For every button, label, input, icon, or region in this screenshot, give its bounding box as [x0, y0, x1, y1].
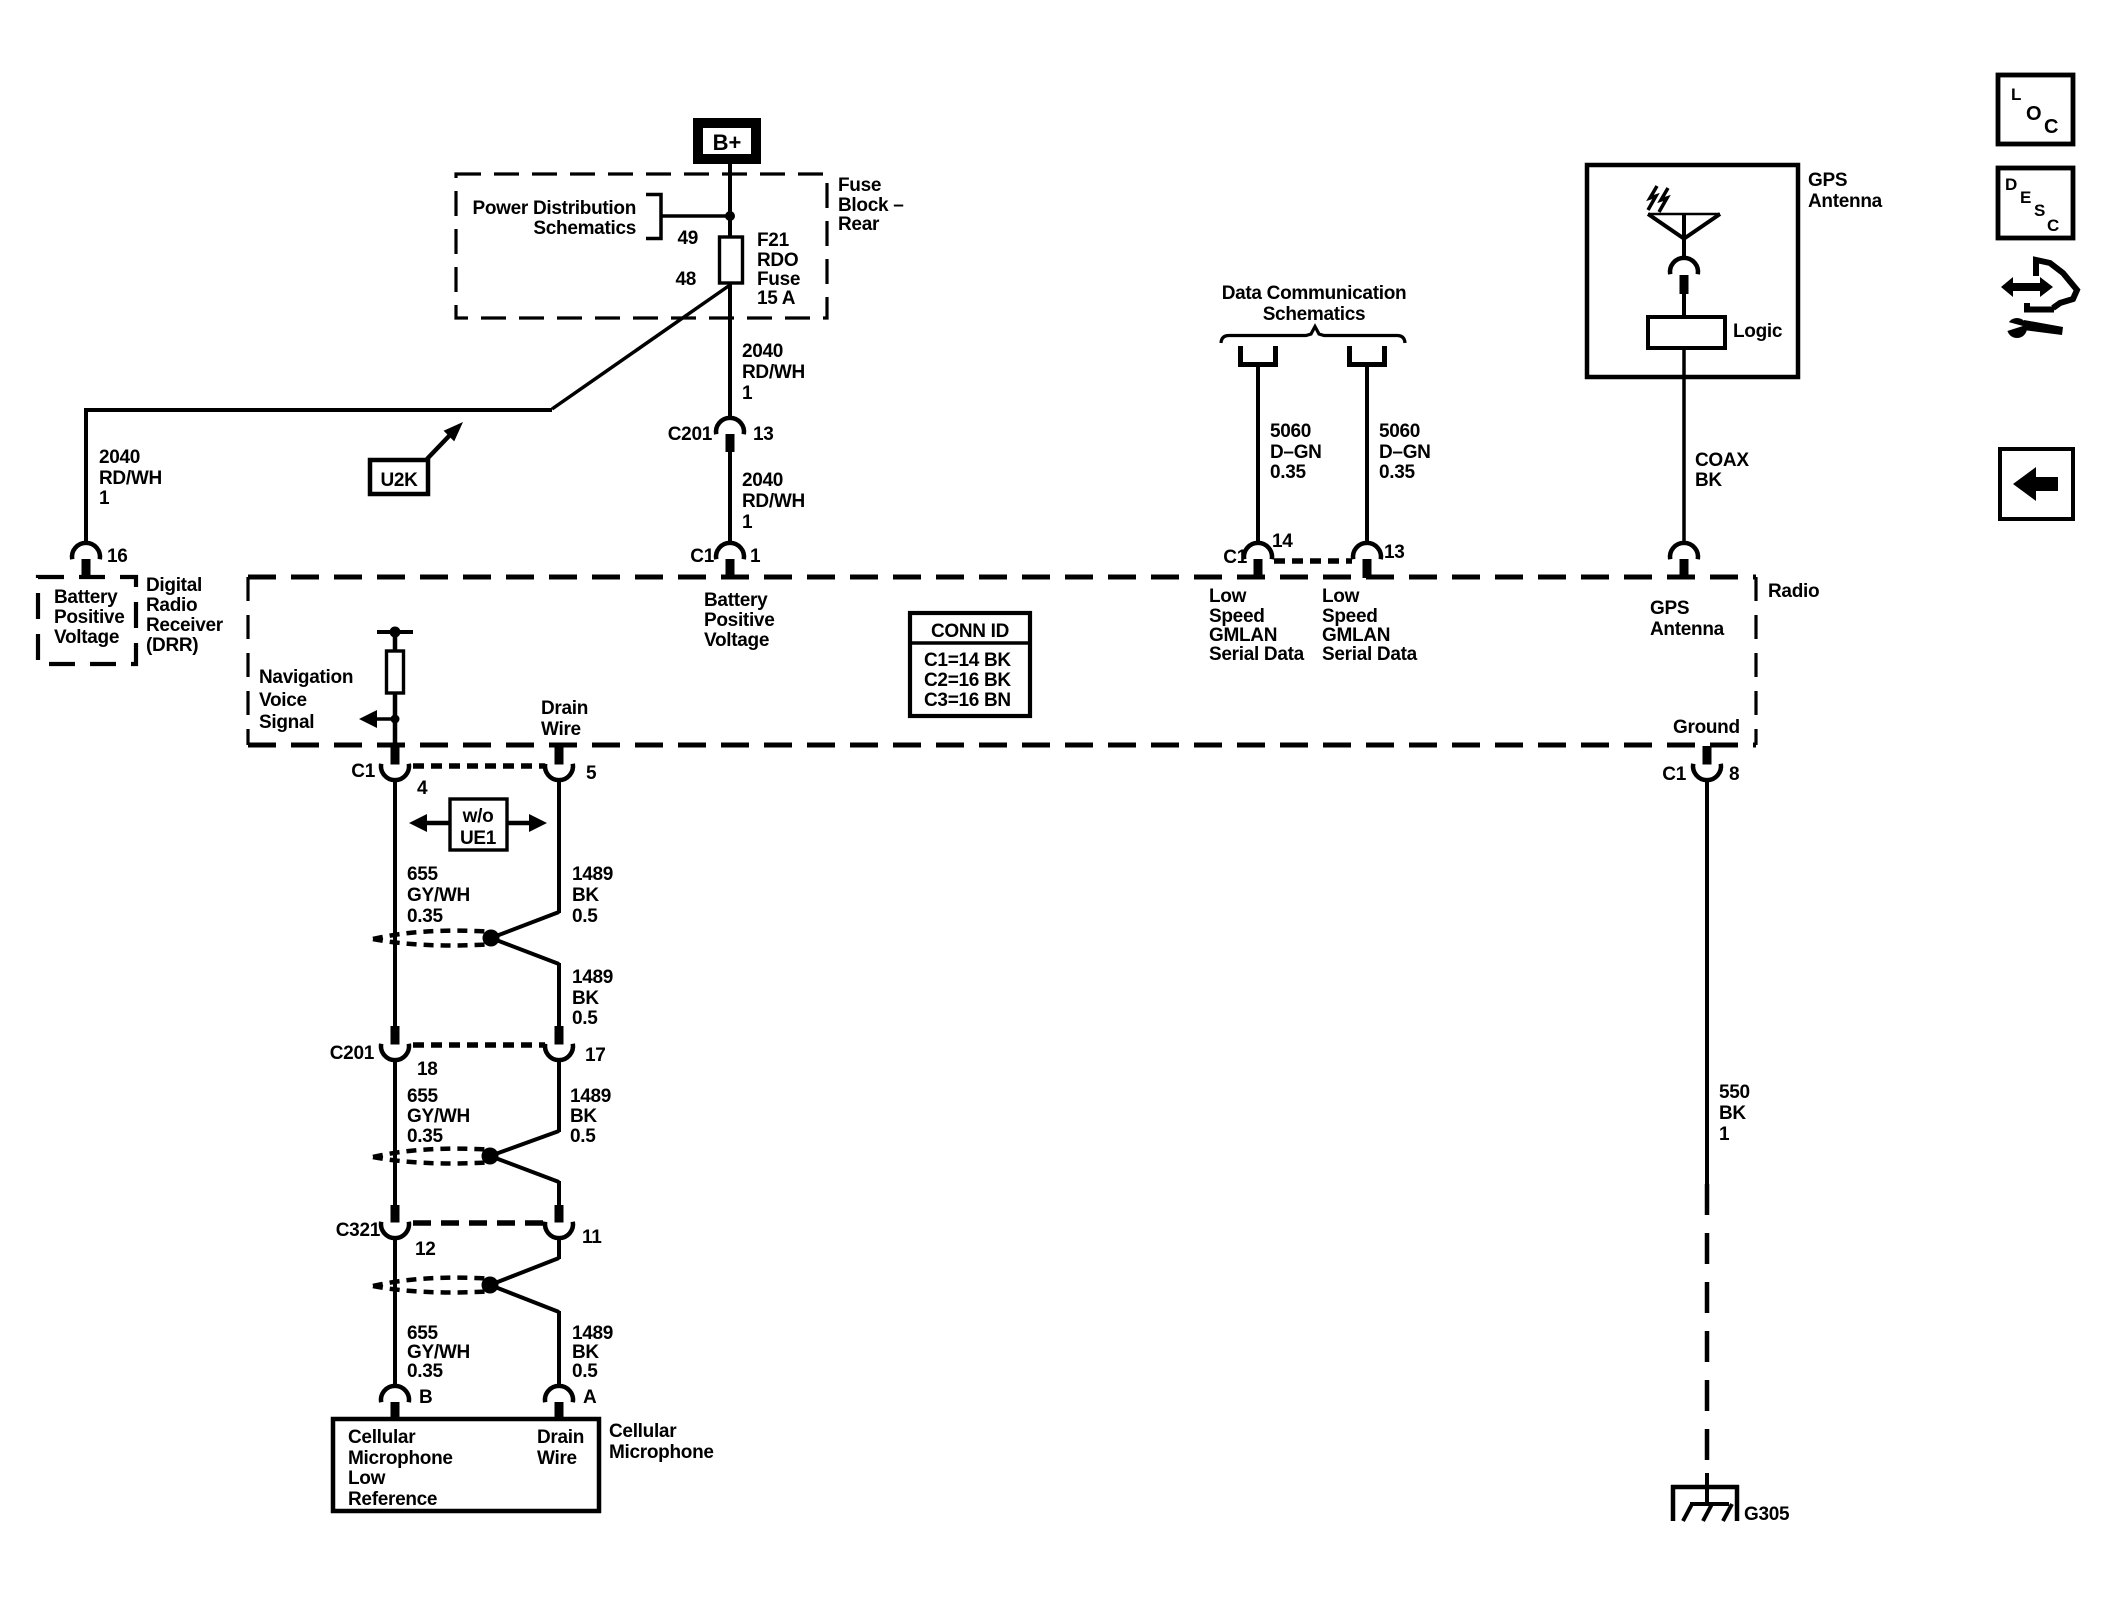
- wire label 2040 RD/WH 1 (upper middle): [742, 341, 805, 404]
- svg-text:1: 1: [1719, 1124, 1730, 1145]
- C1 8 labels: [1662, 764, 1739, 785]
- svg-text:Block –: Block –: [838, 195, 904, 216]
- shield junction dot 2: [482, 1148, 499, 1165]
- svg-text:49: 49: [677, 228, 698, 249]
- wire 655 segment 3: [393, 1236, 397, 1387]
- terminal B A labels: [419, 1387, 597, 1408]
- icon back arrow box: [2000, 449, 2073, 519]
- C321 12 11 labels: [336, 1220, 602, 1260]
- svg-text:D–GN: D–GN: [1270, 442, 1322, 463]
- wire GMLAN right: [1365, 365, 1369, 544]
- svg-text:BK: BK: [1695, 470, 1722, 491]
- svg-text:Low: Low: [348, 1468, 386, 1489]
- svg-text:CONN ID: CONN ID: [931, 621, 1009, 642]
- svg-text:Antenna: Antenna: [1808, 191, 1883, 212]
- wire label COAX BK: [1695, 450, 1749, 491]
- navigation voice signal arrow: [359, 710, 400, 728]
- svg-text:11: 11: [582, 1227, 602, 1248]
- svg-text:UE1: UE1: [460, 828, 497, 849]
- svg-text:0.5: 0.5: [572, 906, 598, 927]
- svg-text:Schematics: Schematics: [533, 218, 636, 239]
- svg-text:Power Distribution: Power Distribution: [473, 198, 637, 219]
- connector C1 pin 5 below radio: [545, 746, 573, 780]
- svg-text:Microphone: Microphone: [348, 1448, 453, 1469]
- shield ellipse 1: [373, 931, 487, 939]
- wire drain segment 3: [557, 1058, 561, 1132]
- wire drain segment 2: [557, 963, 561, 1026]
- svg-text:1: 1: [99, 488, 110, 509]
- svg-text:RD/WH: RD/WH: [99, 468, 162, 489]
- data comm right connector bracket: [1350, 346, 1385, 365]
- wire label 1489 BK 0.5 (2): [572, 967, 613, 1029]
- connector C1 GPS antenna at radio: [1670, 543, 1698, 578]
- svg-text:0.35: 0.35: [1270, 462, 1307, 483]
- svg-text:GY/WH: GY/WH: [407, 885, 470, 906]
- radio dashed box top edge: [248, 575, 1756, 580]
- bracket to power distribution: [646, 195, 661, 239]
- svg-text:1489: 1489: [572, 967, 613, 988]
- svg-text:G305: G305: [1744, 1504, 1790, 1525]
- coax wire GPS to radio: [1682, 348, 1686, 544]
- svg-text:GPS: GPS: [1650, 598, 1689, 619]
- svg-text:Low: Low: [1209, 586, 1247, 607]
- svg-text:BK: BK: [572, 988, 599, 1009]
- drain diagonal from shield 1: [491, 938, 559, 964]
- svg-text:2040: 2040: [99, 447, 140, 468]
- label Navigation Voice Signal: [259, 667, 353, 733]
- label GPS Antenna (module): [1808, 170, 1883, 212]
- terminal B connector: [381, 1386, 409, 1421]
- w/o UE1 double arrow: [409, 814, 547, 832]
- dashed link between pins 12 and 11: [413, 1220, 545, 1226]
- svg-text:w/o: w/o: [462, 806, 494, 827]
- svg-text:Battery: Battery: [54, 587, 118, 608]
- svg-text:Voice: Voice: [259, 690, 307, 711]
- svg-text:1: 1: [742, 512, 753, 533]
- svg-text:C: C: [2047, 216, 2059, 235]
- wire label 550 BK 1: [1719, 1082, 1750, 1145]
- svg-text:Cellular: Cellular: [348, 1427, 416, 1448]
- svg-text:Digital: Digital: [146, 575, 202, 596]
- svg-text:GY/WH: GY/WH: [407, 1106, 470, 1127]
- svg-text:Low: Low: [1322, 586, 1360, 607]
- svg-text:Schematics: Schematics: [1263, 304, 1366, 325]
- drain diagonal from shield 2: [490, 1156, 559, 1182]
- svg-text:Drain: Drain: [537, 1427, 584, 1448]
- svg-text:5: 5: [586, 763, 597, 784]
- svg-text:0.5: 0.5: [572, 1361, 598, 1382]
- svg-text:0.5: 0.5: [572, 1008, 598, 1029]
- svg-text:Microphone: Microphone: [609, 1442, 714, 1463]
- ground symbol G305: [1671, 1473, 1739, 1521]
- wire B+ to fuse: [728, 164, 732, 237]
- wire GMLAN left: [1256, 365, 1260, 544]
- svg-text:Logic: Logic: [1733, 321, 1783, 342]
- drain diagonal down to shield 2: [490, 1131, 559, 1156]
- svg-text:F21: F21: [757, 230, 790, 251]
- svg-text:BK: BK: [570, 1106, 597, 1127]
- wire label 2040 RD/WH 1 (left): [99, 447, 162, 509]
- svg-text:655: 655: [407, 1323, 439, 1344]
- cellular microphone box: [333, 1419, 599, 1511]
- svg-text:L: L: [2011, 85, 2021, 104]
- svg-text:C321: C321: [336, 1220, 381, 1241]
- svg-text:GMLAN: GMLAN: [1209, 625, 1277, 646]
- w/o UE1 callout: [450, 799, 507, 850]
- shield junction dot 3: [482, 1277, 499, 1294]
- wire drain segment 5: [557, 1236, 561, 1259]
- svg-text:1489: 1489: [572, 864, 613, 885]
- svg-text:17: 17: [585, 1045, 606, 1066]
- svg-text:Serial Data: Serial Data: [1209, 644, 1305, 665]
- label Fuse Block - Rear: [838, 175, 904, 235]
- label Drain Wire (microphone): [537, 1427, 584, 1469]
- svg-text:2040: 2040: [742, 470, 783, 491]
- connector C1 pin 14 at radio: [1244, 543, 1272, 578]
- svg-text:550: 550: [1719, 1082, 1750, 1103]
- svg-text:Radio: Radio: [146, 595, 197, 616]
- wire label 5060 D-GN 0.35 right: [1379, 421, 1431, 483]
- svg-text:Serial Data: Serial Data: [1322, 644, 1418, 665]
- wire label 1489 BK 0.5 (1): [572, 864, 613, 927]
- label Power Distribution Schematics: [473, 198, 637, 239]
- C1 4 5 labels: [351, 761, 597, 799]
- svg-text:0.35: 0.35: [1379, 462, 1416, 483]
- label Digital Radio Receiver (DRR): [146, 575, 224, 656]
- svg-text:Wire: Wire: [537, 1448, 577, 1469]
- logic box: [1648, 317, 1725, 348]
- svg-text:C1: C1: [1223, 547, 1247, 568]
- shield junction dot 1: [483, 930, 500, 947]
- wire fuse to C201: [728, 283, 732, 420]
- icon LOC box: [1998, 75, 2073, 144]
- svg-text:Speed: Speed: [1209, 606, 1265, 627]
- connector 16 at DRR: [72, 543, 100, 578]
- svg-text:1489: 1489: [572, 1323, 613, 1344]
- svg-text:Antenna: Antenna: [1650, 619, 1725, 640]
- svg-text:Fuse: Fuse: [757, 269, 800, 290]
- svg-text:0.5: 0.5: [570, 1126, 596, 1147]
- svg-text:Navigation: Navigation: [259, 667, 353, 688]
- wire T-bar to resistor: [393, 632, 398, 651]
- svg-text:BK: BK: [572, 1342, 599, 1363]
- svg-text:Ground: Ground: [1673, 717, 1740, 738]
- label Battery Positive Voltage (DRR): [54, 587, 124, 648]
- svg-text:RD/WH: RD/WH: [742, 362, 805, 383]
- svg-text:655: 655: [407, 864, 439, 885]
- svg-text:655: 655: [407, 1086, 439, 1107]
- svg-text:5060: 5060: [1270, 421, 1311, 442]
- svg-text:Positive: Positive: [54, 607, 124, 628]
- wire 655 segment 1: [393, 780, 397, 1026]
- icon connector-view (double arrow, outline, wrench): [2001, 260, 2077, 338]
- label GPS Antenna (radio pin): [1650, 598, 1725, 640]
- svg-text:GY/WH: GY/WH: [407, 1342, 470, 1363]
- wire drain segment 4: [557, 1181, 561, 1205]
- svg-text:C201: C201: [330, 1043, 375, 1064]
- dotted link between pins 4 and 5: [413, 763, 545, 769]
- dashed link between pins 14 and 13: [1274, 558, 1352, 564]
- label Low Speed GMLAN Serial Data left: [1209, 586, 1305, 665]
- label Battery Positive Voltage (radio): [704, 590, 774, 651]
- data comm left connector bracket: [1241, 346, 1276, 365]
- svg-text:U2K: U2K: [380, 470, 418, 491]
- svg-text:Voltage: Voltage: [704, 630, 769, 651]
- wire drain segment 6: [557, 1311, 561, 1387]
- dotted link between pins 18 and 17: [413, 1042, 545, 1048]
- svg-text:C1: C1: [690, 546, 714, 567]
- svg-text:D–GN: D–GN: [1379, 442, 1431, 463]
- connector C1 pin 8 below radio: [1693, 746, 1721, 780]
- svg-text:0.35: 0.35: [407, 906, 444, 927]
- U2K arrow: [427, 422, 463, 459]
- antenna symbol: [1648, 214, 1720, 259]
- svg-text:14: 14: [1272, 531, 1293, 552]
- svg-text:E: E: [2020, 188, 2031, 207]
- svg-text:Drain: Drain: [541, 698, 588, 719]
- svg-text:16: 16: [107, 546, 128, 567]
- wire antenna to logic: [1682, 294, 1686, 317]
- ground wire solid segment: [1705, 780, 1709, 1184]
- U2K callout box: [370, 460, 428, 494]
- svg-text:C1=14 BK: C1=14 BK: [924, 650, 1011, 671]
- wire drain segment 1: [557, 780, 561, 913]
- C201 18 17 labels: [330, 1043, 606, 1080]
- wire horizontal branch to DRR: [86, 410, 552, 543]
- svg-text:BK: BK: [572, 885, 599, 906]
- wire label 655 GY/WH 0.35 (3): [407, 1323, 470, 1382]
- brace under Data Communication: [1221, 327, 1405, 344]
- wire label 1489 BK 0.5 (3): [570, 1086, 611, 1147]
- svg-text:Speed: Speed: [1322, 606, 1378, 627]
- wire label 655 GY/WH 0.35 (1): [407, 864, 470, 927]
- fuse F21 RDO 15 A: [720, 237, 743, 283]
- svg-text:B: B: [419, 1387, 432, 1408]
- svg-text:D: D: [2005, 175, 2017, 194]
- svg-text:1: 1: [742, 383, 753, 404]
- connector C1 pin 1 at radio: [716, 543, 744, 578]
- svg-text:15 A: 15 A: [757, 288, 796, 309]
- svg-text:Reference: Reference: [348, 1489, 437, 1510]
- svg-text:RDO: RDO: [757, 250, 798, 271]
- svg-text:Radio: Radio: [1768, 581, 1819, 602]
- svg-text:Fuse: Fuse: [838, 175, 881, 196]
- svg-text:1: 1: [750, 546, 761, 567]
- drain diagonal down to shield 1: [491, 912, 559, 938]
- shield ellipse 3: [373, 1278, 487, 1286]
- label Cellular Microphone Low Reference: [348, 1427, 453, 1510]
- svg-text:C: C: [2044, 116, 2058, 138]
- terminal A connector: [545, 1386, 573, 1421]
- fuse block - rear dashed box: [456, 174, 827, 318]
- antenna signal marks: [1648, 186, 1668, 212]
- GPS antenna module box: [1587, 165, 1798, 377]
- svg-text:RD/WH: RD/WH: [742, 491, 805, 512]
- svg-text:A: A: [583, 1387, 597, 1408]
- connector C201 terminal 13: [716, 418, 744, 452]
- svg-text:BK: BK: [1719, 1103, 1746, 1124]
- icon DESC box: [1998, 168, 2073, 238]
- power symbol B+: [698, 123, 756, 159]
- svg-text:Data Communication: Data Communication: [1222, 283, 1407, 304]
- connector C321 pin 11: [545, 1205, 573, 1238]
- drain diagonal from shield 3: [490, 1285, 559, 1312]
- svg-text:COAX: COAX: [1695, 450, 1749, 471]
- svg-text:48: 48: [675, 269, 696, 290]
- antenna connector: [1670, 258, 1698, 294]
- svg-text:C3=16 BN: C3=16 BN: [924, 690, 1011, 711]
- svg-text:C2=16 BK: C2=16 BK: [924, 670, 1011, 691]
- svg-text:18: 18: [417, 1059, 438, 1080]
- connector pin 13 at radio: [1353, 543, 1381, 578]
- radio dashed box left edge: [246, 577, 249, 745]
- svg-text:GMLAN: GMLAN: [1322, 625, 1390, 646]
- svg-text:Wire: Wire: [541, 719, 581, 740]
- svg-text:1489: 1489: [570, 1086, 611, 1107]
- wire label 655 GY/WH 0.35 (2): [407, 1086, 470, 1147]
- label Data Communication Schematics: [1222, 283, 1407, 325]
- label Low Speed GMLAN Serial Data right: [1322, 586, 1418, 665]
- svg-text:C1: C1: [1662, 764, 1686, 785]
- wire resistor to box edge: [393, 693, 398, 748]
- DRR dashed box: [38, 577, 136, 664]
- drain diagonal down to shield 3: [490, 1258, 559, 1285]
- svg-text:C1: C1: [351, 761, 375, 782]
- svg-text:0.35: 0.35: [407, 1126, 444, 1147]
- svg-text:B+: B+: [713, 130, 742, 155]
- radio dashed box bottom edge: [248, 743, 1756, 748]
- junction dot at B+ wire: [725, 211, 735, 221]
- svg-text:O: O: [2026, 103, 2042, 125]
- navigation resistor element: [387, 651, 404, 693]
- svg-text:4: 4: [417, 778, 428, 799]
- C1 pin 1 labels: [690, 546, 761, 567]
- svg-text:Voltage: Voltage: [54, 627, 119, 648]
- connector C201 pin 18: [381, 1026, 409, 1060]
- svg-text:GPS: GPS: [1808, 170, 1847, 191]
- svg-text:Battery: Battery: [704, 590, 768, 611]
- wire label 1489 BK 0.5 (4): [572, 1323, 613, 1382]
- wire label 2040 RD/WH 1 (lower middle): [742, 470, 805, 533]
- svg-text:(DRR): (DRR): [146, 635, 198, 656]
- C1 14 13 labels: [1223, 531, 1404, 568]
- svg-text:13: 13: [753, 424, 774, 445]
- label Drain Wire (radio): [541, 698, 588, 740]
- CONN ID table: [910, 613, 1030, 716]
- svg-text:Cellular: Cellular: [609, 1421, 677, 1442]
- svg-text:S: S: [2034, 201, 2045, 220]
- svg-text:Rear: Rear: [838, 214, 880, 235]
- connector C201-13 labels: [668, 424, 774, 445]
- label Cellular Microphone (outside): [609, 1421, 714, 1463]
- navigation junction T-bar: [377, 627, 413, 638]
- svg-text:5060: 5060: [1379, 421, 1420, 442]
- ground wire dashed segment: [1705, 1184, 1710, 1478]
- shield ellipse 2: [373, 1149, 487, 1157]
- svg-text:12: 12: [415, 1239, 436, 1260]
- svg-text:Signal: Signal: [259, 712, 314, 733]
- svg-text:2040: 2040: [742, 341, 783, 362]
- svg-text:Receiver: Receiver: [146, 615, 224, 636]
- wire label 5060 D-GN 0.35 left: [1270, 421, 1322, 483]
- svg-text:C201: C201: [668, 424, 713, 445]
- connector C321 pin 12: [381, 1205, 409, 1238]
- svg-text:0.35: 0.35: [407, 1361, 444, 1382]
- svg-text:13: 13: [1384, 542, 1405, 563]
- connector C201 pin 17: [545, 1026, 573, 1060]
- wire C201 to radio C1-1: [728, 452, 732, 544]
- radio dashed box right edge: [1754, 577, 1757, 745]
- fuse F21 value label: [757, 230, 800, 309]
- wire diagonal fuse to left branch: [552, 285, 730, 409]
- wire 655 segment 2: [393, 1058, 397, 1205]
- svg-text:Positive: Positive: [704, 610, 774, 631]
- wire bracket to B+ wire: [661, 214, 730, 218]
- connector C1 pin 4 below radio: [381, 746, 409, 780]
- svg-text:8: 8: [1729, 764, 1739, 785]
